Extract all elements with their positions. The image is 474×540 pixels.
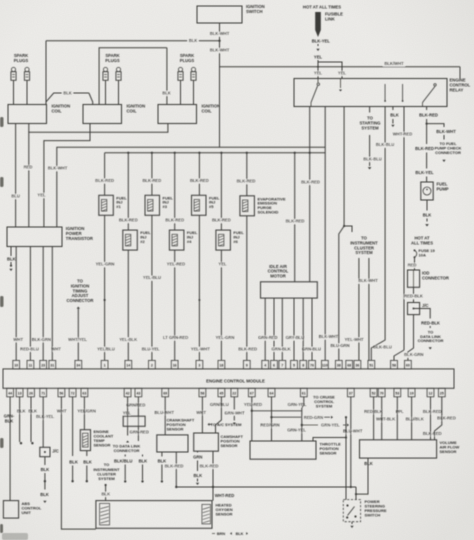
pin 38 top bbox=[335, 360, 342, 369]
label BLK-RED output A lower bbox=[285, 219, 305, 224]
fusible link symbol bbox=[315, 12, 343, 38]
pin 76 top bbox=[309, 360, 316, 369]
pin 37 bottom bbox=[347, 388, 354, 397]
label BLU-GRN above ECM bbox=[331, 343, 350, 348]
wire WHT-RED relay to pin 58 bbox=[393, 107, 413, 361]
evaporative emission purge solenoid bbox=[240, 196, 286, 216]
label GRN/BLU below ECM bbox=[210, 402, 229, 407]
node bus junction x174.7 bbox=[174, 152, 176, 154]
wire BLK relay ground stub bbox=[390, 107, 399, 128]
pin 56 bottom bbox=[58, 388, 65, 397]
wire idle air out to pin 76 bbox=[311, 298, 313, 360]
pin 67 bottom bbox=[248, 388, 255, 397]
wire WHT transistor to pin 10 bbox=[15, 247, 17, 361]
label YEL/GRN below ECM bbox=[77, 408, 95, 413]
hot at all times fuse label bbox=[411, 236, 433, 246]
label LT GRN-RED above ECM bbox=[163, 335, 188, 340]
pin 36 top bbox=[354, 360, 361, 369]
node bus junction x128.3 bbox=[127, 152, 129, 154]
label WHT above ECM bbox=[14, 337, 24, 342]
wire BLK-GRN transistor to pin 23 bbox=[42, 247, 44, 361]
label BLK-YEL below ECM bbox=[36, 414, 54, 419]
wire BLK-RED feed injector #5 bbox=[189, 153, 209, 196]
node YEL crossing bbox=[317, 66, 319, 68]
wire YEL-RED pin 67 to throttle sensor bbox=[251, 397, 253, 441]
pin 45 bottom bbox=[218, 388, 225, 397]
wire YEL coil2 to transistor bbox=[36, 124, 90, 228]
wire BLK-WHT cluster to pin 68 bbox=[358, 258, 360, 360]
ignition coil label coil 2 bbox=[127, 104, 146, 114]
pin 58 bottom bbox=[199, 388, 206, 397]
node cluster split bbox=[343, 225, 345, 227]
idle air control motor label bbox=[268, 264, 289, 279]
node fuel pump branch bbox=[426, 123, 428, 125]
wire RED coil3 to transistor bbox=[22, 124, 168, 228]
label YEL relay input 2 bbox=[337, 71, 348, 76]
label BLK-RED below ECM bbox=[423, 409, 441, 414]
wire RED-BLK connector to junction bbox=[404, 287, 423, 302]
label BLK-BLU above ECM bbox=[373, 345, 391, 350]
wire BLK-RED down to fuel pump bbox=[415, 124, 434, 182]
pin 43 bottom bbox=[135, 388, 142, 397]
engine control module label bbox=[206, 378, 265, 383]
label BLK-RED below ECM bbox=[423, 431, 441, 436]
fuel injector #4 bbox=[169, 230, 198, 250]
heated oxygen sensor box bbox=[96, 501, 212, 529]
camshaft position sensor box bbox=[194, 433, 219, 451]
pin 110 top bbox=[322, 360, 329, 369]
node BLK junction bbox=[44, 480, 46, 482]
engine control module box bbox=[3, 369, 454, 388]
wire GRN camshaft output bbox=[193, 451, 202, 485]
wire BLU coil1 to ignition power transistor bbox=[10, 124, 21, 228]
wire BLK-RED bus feed to idle air motor bbox=[294, 153, 296, 282]
pin 72 bottom bbox=[69, 388, 76, 397]
wire GRN-BLK pin 44 to ABS control unit bbox=[9, 397, 11, 501]
wire BLK-WHT from ignition switch down to junction bbox=[210, 23, 230, 41]
heated oxygen sensor element bbox=[202, 504, 211, 524]
wire BLK-RED relay to fuel pump branch bbox=[419, 107, 438, 124]
wire BLK-YEL below fusible link bbox=[312, 39, 331, 52]
relay switch contact 1 bbox=[311, 79, 319, 107]
relay center contact stubs bbox=[384, 84, 403, 102]
wire idle air out to pin 4 bbox=[264, 298, 266, 360]
ignition coil box coil 3 bbox=[158, 105, 197, 124]
label PPL below ECM bbox=[396, 409, 404, 414]
label GRN-BLU above ECM bbox=[302, 346, 321, 351]
pin 70 bottom bbox=[378, 388, 385, 397]
pin 31 top bbox=[49, 360, 56, 369]
power steering pressure switch label bbox=[365, 499, 387, 518]
wire below connector to data link bbox=[126, 426, 138, 442]
wire RED fuse to connector bbox=[406, 258, 418, 270]
wire BLK-YEL pin 71 to junction block bbox=[42, 397, 44, 448]
wire BLK horizontal bus to coils y40.8 bbox=[46, 38, 220, 43]
engine control relay box bbox=[294, 79, 447, 107]
wire BLK drop to coil 1 bbox=[45, 41, 47, 105]
node sensor bus left bbox=[175, 486, 177, 488]
wire BLU-BLK pin 19 to VAF sensor bbox=[411, 397, 413, 440]
wire GRN-BLU pin 45 to camshaft sensor bbox=[216, 397, 222, 433]
wire GRN-RED pins 42/43 to connector bbox=[128, 397, 139, 416]
pin 23 top bbox=[40, 360, 47, 369]
pin 5 top bbox=[291, 360, 298, 369]
wire BLK-RED camshaft to oxygen sensor bbox=[200, 451, 219, 500]
wire BLK-RED relay output B down to pin 110 bbox=[324, 107, 326, 361]
pin 44 bottom bbox=[7, 388, 14, 397]
fuel injector #5 bbox=[192, 195, 221, 215]
label BLK-BLU lower bbox=[363, 156, 382, 161]
wire pin 37 to sensor bus bbox=[350, 397, 352, 488]
pin 52 bottom bbox=[370, 388, 377, 397]
heated oxygen sensor label bbox=[216, 503, 233, 517]
label YEL-WHT above ECM bbox=[191, 346, 210, 351]
label BLK-WHT above ECM bbox=[319, 334, 339, 339]
wire BLK-RED feed injector #1 bbox=[95, 153, 115, 196]
label YEL relay input 1 bbox=[313, 71, 324, 76]
label TO A/C SYSTEM bbox=[208, 422, 243, 427]
pin 16 top bbox=[171, 360, 178, 369]
pin 3 top bbox=[196, 360, 203, 369]
wire BLK-BLU relay to pin 51 bbox=[371, 107, 385, 361]
wire idle air out to pin 7 bbox=[281, 298, 283, 360]
camshaft position sensor label bbox=[221, 434, 244, 448]
ignition switch box bbox=[197, 6, 242, 23]
wire BLK-RED injector supply bus bbox=[105, 152, 326, 154]
instrument cluster system label bottom bbox=[93, 462, 120, 481]
wire cruise feed to throttle sensor bbox=[313, 436, 347, 441]
pin 71 bottom bbox=[40, 388, 47, 397]
wire BLK-WHT branch to fuel pump check connector bbox=[427, 124, 462, 162]
idle air control motor box bbox=[261, 282, 318, 298]
pin 42 bottom bbox=[124, 388, 131, 397]
spark plug 2 bbox=[24, 67, 29, 104]
wire BLK-GRN junction to pin 60 bbox=[404, 315, 423, 361]
label BLK below ECM bbox=[17, 408, 25, 413]
volume air flow sensor box bbox=[360, 440, 437, 458]
volume air flow sensor label bbox=[440, 440, 460, 454]
power steering pressure switch contacts bbox=[346, 504, 357, 518]
spark plug 5 bbox=[178, 67, 183, 104]
wire idle air out to pin 5 bbox=[293, 298, 295, 360]
pin 19 bottom bbox=[408, 388, 415, 397]
label GRN-RED below ECM bbox=[130, 429, 149, 434]
node bus junction x246.8 bbox=[246, 152, 248, 154]
fuel injector #6 bbox=[216, 230, 245, 250]
relay coil arrow bbox=[339, 79, 342, 92]
pin 53 bottom bbox=[394, 388, 401, 397]
label RED/GRN below ECM bbox=[261, 423, 280, 428]
label GRN-BLK pin 44 wire bbox=[4, 414, 15, 424]
spark plugs pair 1 label bbox=[14, 53, 29, 63]
relay switch contact 2 bbox=[423, 84, 437, 107]
label BRN BLK oxygen sensor leads bbox=[212, 532, 248, 536]
pin 11 top bbox=[27, 360, 34, 369]
node bus junction x199.4 bbox=[198, 152, 200, 154]
label YEL-BLK above ECM bbox=[119, 337, 137, 342]
node bus junction x309.7 bbox=[309, 152, 311, 154]
label WHT below ECM bbox=[197, 410, 207, 415]
wire BLK pin 13 stub bbox=[20, 397, 23, 445]
label GRN-YEL below ECM bbox=[288, 402, 307, 407]
spark plug 6 bbox=[191, 67, 196, 104]
label BLK-RED output A upper bbox=[301, 179, 321, 184]
wire YEL injector #6 to pin 18 bbox=[217, 250, 229, 360]
ABS control unit box bbox=[3, 501, 18, 518]
crankshaft position sensor label bbox=[167, 418, 195, 432]
wire BLK-RED feed injector #2 bbox=[118, 153, 138, 230]
label BLK below ECM bbox=[28, 408, 36, 413]
wire BLK-RED relay output A to idle air motor bbox=[309, 107, 311, 282]
wire YEL-BLU injector #2 to pin 14 bbox=[127, 250, 129, 360]
IOD connector bbox=[408, 270, 449, 287]
pin 69 bottom bbox=[162, 388, 169, 397]
pin 12 bottom bbox=[427, 388, 434, 397]
wire idle air out to pin 6 bbox=[273, 298, 275, 360]
wire BLK-WHT cluster to pin 36 bbox=[358, 258, 378, 360]
wire RED stub from coil 1 bbox=[28, 124, 30, 133]
label BLK-RED above ECM bbox=[238, 346, 256, 351]
label GRY-BLU above ECM bbox=[286, 335, 304, 340]
wire BLK data link stub bbox=[139, 455, 148, 483]
label YEL-RED below ECM bbox=[244, 402, 262, 407]
label YEL/BLU above ECM bbox=[97, 346, 115, 351]
ignition coil box coil 2 bbox=[83, 105, 122, 124]
wire BLK fuel pump ground bbox=[423, 200, 432, 222]
pin 9 top bbox=[243, 360, 250, 369]
ignition power transistor label bbox=[66, 226, 93, 241]
wire YEL branch to relay second input bbox=[318, 62, 342, 79]
hot at all times label bbox=[303, 5, 341, 10]
wire BLK riser coil2 to upper bus bbox=[99, 48, 167, 105]
label GRN/RED below ECM bbox=[126, 402, 145, 407]
wire WHT-YEL timing connector to pin 34 bbox=[77, 307, 80, 361]
pin 51 top bbox=[368, 360, 375, 369]
engine control relay label bbox=[450, 78, 471, 93]
instrument cluster mid label bbox=[350, 236, 378, 256]
wire pin 61 to throttle sensor bbox=[302, 397, 304, 441]
spark plugs pair 3 label bbox=[180, 53, 195, 63]
wire BLK pin 26 stub bbox=[31, 397, 34, 445]
label YEL below ECM bbox=[123, 411, 131, 416]
wire injector #3 to pin 2 bbox=[142, 215, 162, 360]
wire WHT pin 58 to camshaft sensor bbox=[201, 397, 203, 433]
wire WHT transistor to pin 31 bbox=[51, 247, 53, 361]
wire BLK-WHT switch to transistor bbox=[48, 147, 326, 227]
pin 10 top bbox=[13, 360, 20, 369]
wire idle air out to pin 8 bbox=[302, 298, 304, 360]
wire RED-BLK pin 52 to VAF sensor bbox=[373, 397, 375, 440]
label BLK-RED below ECM bbox=[437, 415, 455, 420]
node junction ignition feed bbox=[218, 40, 220, 42]
fuel pump bbox=[421, 182, 449, 201]
wire link pins 67-61 bbox=[251, 410, 302, 412]
ignition coil box coil 1 bbox=[8, 105, 47, 124]
pin 64 bottom bbox=[268, 388, 275, 397]
wire pin 72 BLK stub bbox=[69, 397, 78, 483]
label GRN-WHT below ECM bbox=[225, 410, 245, 415]
pin 1 top bbox=[101, 360, 108, 369]
pin 34 top bbox=[75, 360, 82, 369]
throttle position sensor label bbox=[320, 442, 342, 456]
throttle position sensor box bbox=[250, 441, 316, 459]
label WHT above ECM bbox=[51, 346, 61, 351]
ignition power transistor box bbox=[7, 227, 62, 247]
fuse 19 10A bbox=[414, 248, 436, 258]
junction block J/C left bbox=[40, 447, 59, 456]
pin 6 top bbox=[271, 360, 278, 369]
wire BLU-GRN to pin 38 bbox=[339, 226, 344, 360]
label GRN-RED above ECM bbox=[258, 335, 277, 340]
wire BLK-RED feed injector #4 bbox=[165, 153, 185, 230]
wire BLK-RED pin 25 to VAF sensor bbox=[435, 397, 442, 440]
fuel injector #3 bbox=[145, 195, 174, 215]
wire purge solenoid to pin 9 bbox=[246, 216, 248, 361]
spark plug 3 bbox=[103, 67, 108, 104]
ignition coil label coil 3 bbox=[202, 104, 221, 114]
wire TO STARTING SYSTEM bbox=[359, 107, 380, 170]
spark plug 1 bbox=[11, 67, 16, 104]
pin 22 bottom bbox=[231, 388, 238, 397]
pin 14 top bbox=[125, 360, 132, 369]
wire BLK-RED crankshaft to sensor bus bbox=[164, 452, 184, 487]
wire switch output arrow bbox=[350, 522, 353, 528]
connector on data link wires bbox=[123, 416, 145, 426]
wire GRN-YEL cruise stub bbox=[301, 424, 349, 427]
wire RED-BLU transistor to pin 11 bbox=[29, 247, 31, 361]
wire BLK drop to coil 3 bbox=[161, 48, 172, 105]
label BLU-YEL above ECM bbox=[142, 346, 160, 351]
pin 8 top bbox=[300, 360, 307, 369]
pin 63 bottom bbox=[81, 388, 88, 397]
ignition coil label coil 1 bbox=[52, 104, 71, 114]
wire BLK below junction block bbox=[41, 457, 50, 480]
engine coolant temp sensor bbox=[80, 430, 90, 451]
label GRN-YEL below ECM bbox=[287, 428, 306, 433]
wire injector #5 to pin 3 bbox=[198, 215, 200, 360]
wire RED-BLK branch to data link connector bbox=[414, 309, 444, 350]
node bus junction x151.9 bbox=[151, 152, 153, 154]
pin 61 bottom bbox=[300, 388, 307, 397]
ground fuel pump bbox=[425, 224, 429, 226]
label BLK-GRN above ECM bbox=[32, 337, 51, 342]
pin 60 top bbox=[405, 360, 412, 369]
wire BLU-WHT cruise column to switch bbox=[345, 416, 347, 500]
wire BLK crankshaft output bbox=[158, 452, 167, 483]
wire GRN-WHT pin 22 stub bbox=[233, 397, 236, 425]
wire BLK-RED pin 12 to VAF sensor bbox=[430, 397, 432, 440]
spark plugs pair 2 label bbox=[105, 53, 120, 63]
wire BLK transistor ground lead bbox=[7, 247, 16, 265]
label GRN-BLK above ECM bbox=[272, 346, 291, 351]
pin 2 top bbox=[149, 360, 156, 369]
wire YEL-GRN pin 63 to coolant sensor bbox=[83, 397, 85, 430]
heated oxygen sensor heater element bbox=[100, 503, 110, 525]
label BLU-WHT below ECM bbox=[343, 429, 363, 434]
label YEL-GRN above ECM bbox=[216, 335, 234, 340]
node bus junction x221.4 bbox=[220, 152, 222, 154]
pin 7 top bbox=[279, 360, 286, 369]
wire BLK VAF output to switch bbox=[356, 458, 373, 494]
label WHT-BLK below ECM bbox=[376, 417, 395, 422]
wire BLK continues to ground arrow bbox=[40, 481, 49, 503]
scan edge artifacts bbox=[0, 117, 28, 540]
pin 25 bottom bbox=[438, 388, 445, 397]
wire BLK bridge coil1 to coil2 bbox=[46, 91, 93, 105]
label RED-BLU above ECM bbox=[20, 346, 38, 351]
label BLU/BLK below ECM bbox=[406, 417, 424, 422]
label BLK-BLU upper bbox=[376, 142, 395, 147]
wire WHT-RED sensor bus bbox=[176, 486, 356, 498]
wire BLK-RED feed injector #6 bbox=[211, 153, 231, 230]
wire YEL fusible link to relay bbox=[314, 55, 323, 79]
engine coolant temp sensor label bbox=[94, 429, 114, 448]
label GRN-YEL below ECM bbox=[321, 422, 340, 427]
wire YEL-GRN injector #1 to pin 1 bbox=[95, 215, 115, 360]
pin 18 top bbox=[218, 360, 225, 369]
wire relay output to cluster split bbox=[344, 107, 352, 233]
wire RED-GRN cruise stub bbox=[270, 415, 333, 420]
pin 68 top bbox=[346, 360, 353, 369]
junction block J/C right bbox=[408, 303, 429, 315]
label TO CRUISE CONTROL SYSTEM bbox=[313, 395, 335, 409]
wire WHT-BLK pin 70 to VAF sensor bbox=[381, 397, 383, 440]
ignition switch label bbox=[246, 4, 265, 14]
node bus junction x294.7 bbox=[294, 152, 296, 154]
wire BLK-RED feed purge solenoid bbox=[236, 153, 256, 196]
fuel injector #1 bbox=[99, 195, 128, 215]
wire sensor bus down to switch bbox=[355, 487, 357, 500]
power steering pressure switch box bbox=[343, 500, 360, 522]
wire WHT pin 56 to oxygen sensor bbox=[61, 397, 96, 529]
pin 13 bottom bbox=[16, 388, 23, 397]
wire BLK-BLU data link stub bbox=[114, 455, 132, 483]
wire injector #4 to pin 16 bbox=[166, 250, 186, 360]
ground transistor bbox=[9, 265, 12, 272]
wire PPL pin 53 to VAF sensor bbox=[396, 397, 398, 440]
pin 58 top bbox=[391, 360, 398, 369]
wire BLK stub into oxygen sensor bbox=[100, 484, 112, 501]
label YEL-WHT above ECM bbox=[345, 337, 364, 342]
wire BLK-WHT horizontal to engine control relay bbox=[220, 61, 461, 78]
spark plug 4 bbox=[116, 67, 121, 104]
wire BLU-WHT pin 69 to crankshaft sensor bbox=[164, 397, 166, 435]
wire pin 64 to throttle sensor bbox=[271, 397, 273, 441]
label WHT/YEL above ECM bbox=[68, 337, 87, 342]
label RED-BLK below ECM bbox=[364, 409, 382, 414]
label WHT below ECM bbox=[57, 408, 67, 413]
crankshaft position sensor box bbox=[157, 435, 188, 452]
wire BLK-WHT junction down to corner y66.8 bbox=[210, 41, 230, 148]
pin 26 bottom bbox=[28, 388, 35, 397]
fuel injector #2 bbox=[123, 230, 152, 250]
label BLU-WHT below ECM bbox=[155, 410, 175, 415]
data link connector label left bbox=[113, 443, 141, 453]
pin 4 top bbox=[262, 360, 269, 369]
ignition timing adjust connector label bbox=[67, 279, 94, 304]
wire BLK coolant sensor output bbox=[83, 451, 92, 483]
wire BLK-RED feed injector #3 bbox=[142, 153, 162, 196]
ABS control unit label bbox=[22, 501, 42, 515]
